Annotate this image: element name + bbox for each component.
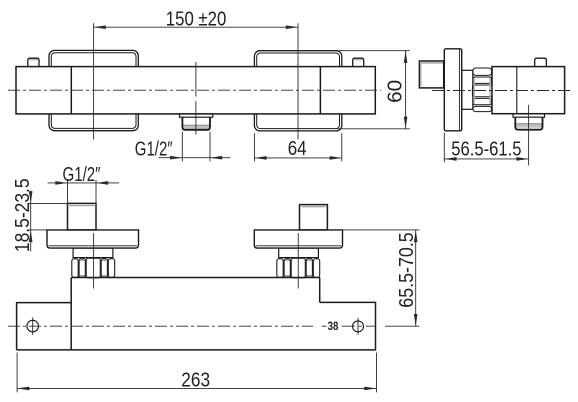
plan right union centerline	[297, 233, 299, 289]
front outlet centerline	[195, 62, 197, 135]
plan left connector stub	[73, 248, 113, 258]
side view top tab	[535, 58, 547, 66]
side view escutcheon plate	[444, 49, 461, 131]
side view eccentric wall union square	[419, 61, 443, 88]
side view horizontal centerline	[432, 90, 572, 92]
front view right union centerline / extension	[297, 23, 299, 139]
svg-text:60: 60	[384, 80, 406, 103]
escutcheon right (rounded square, outer)	[254, 51, 341, 131]
plan left hex nut	[72, 258, 115, 278]
side view outlet flange	[513, 114, 545, 118]
svg-text:18.5-23.5: 18.5-23.5	[12, 178, 34, 252]
side view main body	[492, 67, 565, 114]
svg-text:G1/2″: G1/2″	[63, 164, 101, 186]
plan right escutcheon plate	[254, 230, 342, 248]
dimension G1/2 front	[135, 132, 231, 162]
front view left union centerline / extension	[93, 23, 95, 139]
svg-text:150 ±20: 150 ±20	[166, 9, 227, 31]
svg-text:G1/2″: G1/2″	[135, 138, 173, 160]
top tab right on bar	[353, 58, 364, 66]
plan right eccentric union square	[300, 205, 328, 230]
top tab left on bar	[28, 58, 39, 66]
bar divider line left (handle joint)	[70, 67, 72, 114]
side view connector stub	[462, 70, 473, 109]
plan right hex nut	[277, 258, 320, 278]
dimension 150 +-20	[94, 9, 298, 31]
plan bar back edge line	[71, 277, 320, 279]
plan left escutcheon plate	[47, 230, 139, 248]
dimension 64	[254, 133, 341, 161]
outlet stub G1/2 with chamfer	[182, 117, 210, 130]
side view hex nut	[472, 68, 492, 112]
dimension G1/2 plan	[48, 164, 120, 205]
dimension 56.5-61.5	[444, 133, 528, 163]
svg-text:64: 64	[288, 138, 307, 160]
svg-text:56.5-61.5: 56.5-61.5	[451, 139, 521, 161]
front view horizontal centerline	[8, 89, 381, 91]
plan horizontal centerline with 38 label	[8, 319, 376, 333]
plan right connector stub	[279, 248, 319, 258]
main bar body	[16, 67, 375, 114]
svg-text:263: 263	[181, 369, 210, 391]
side view outlet stub	[515, 117, 542, 130]
plan right mounting hole	[353, 318, 364, 335]
dimension 18.5-23.5	[12, 178, 68, 252]
svg-text:65.5-70.5: 65.5-70.5	[396, 232, 418, 307]
dimension 60	[337, 51, 410, 129]
plan left union centerline	[93, 233, 95, 289]
side outlet centerline / extension	[528, 105, 530, 166]
plan left mounting hole	[27, 317, 39, 334]
svg-text:38: 38	[328, 319, 339, 333]
bar divider line right	[319, 67, 321, 114]
dimension 65.5-70.5	[343, 230, 420, 326]
plan left eccentric union square	[68, 203, 97, 230]
dimension 263	[17, 353, 376, 393]
plan bar and end blocks outline	[17, 278, 376, 350]
escutcheon left (rounded square, outer)	[49, 50, 138, 130]
outlet flange under bar	[180, 114, 213, 117]
